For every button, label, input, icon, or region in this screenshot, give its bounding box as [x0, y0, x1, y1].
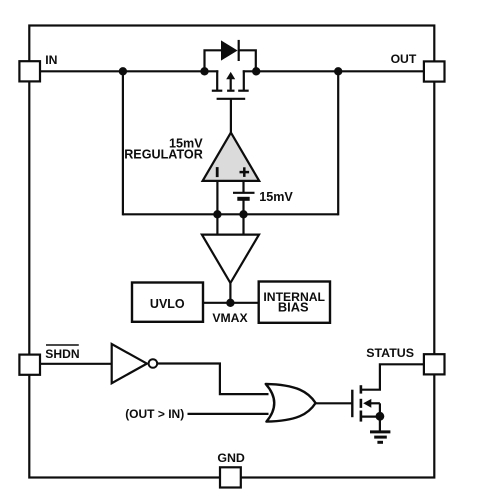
node: sense rail left junction	[213, 210, 221, 218]
wire: inverter output to OR gate top input	[157, 364, 268, 395]
svg-text:15mV: 15mV	[259, 190, 293, 204]
comparator U2	[202, 235, 259, 283]
svg-text:UVLO: UVLO	[150, 297, 185, 311]
pin pad SHDN	[19, 355, 40, 375]
pin pad STATUS	[424, 354, 445, 374]
wire: IN rail left segment	[29, 70, 218, 72]
wire: Q2 source to ground	[379, 417, 381, 432]
node: Q1 drain junction	[252, 67, 260, 75]
svg-text:OUT: OUT	[391, 52, 417, 66]
node VMAX	[226, 299, 234, 307]
transistor Q2 (status NMOS)	[352, 364, 424, 421]
wire: OUT rail right segment	[243, 70, 434, 72]
battery V1 15mV offset	[233, 193, 255, 199]
diode D1 body diode	[205, 40, 256, 71]
U1 minus input mark	[216, 167, 219, 177]
svg-text:REGULATOR: REGULATOR	[124, 148, 203, 162]
node: Q2 source-body junction	[376, 412, 385, 421]
label SHDN (with overbar)	[45, 345, 79, 361]
svg-text:VMAX: VMAX	[212, 311, 248, 325]
pin pad OUT	[424, 61, 445, 81]
svg-text:STATUS: STATUS	[366, 346, 414, 360]
pin pad IN	[19, 61, 40, 81]
outer border frame wire	[29, 26, 434, 478]
svg-text:BIAS: BIAS	[278, 300, 309, 315]
U3 output bubble	[149, 359, 158, 368]
wire: right branch OUT sense	[337, 71, 339, 215]
ground symbol	[370, 432, 390, 442]
svg-text:IN: IN	[45, 53, 57, 67]
svg-text:SHDN: SHDN	[45, 347, 79, 361]
node: sense rail right junction	[239, 210, 247, 218]
svg-text:(OUT > IN): (OUT > IN)	[125, 407, 184, 421]
wire: OR output to Q2 gate	[316, 402, 353, 404]
OR gate U4	[266, 384, 316, 422]
wire: VMAX to INTERNAL BIAS	[230, 302, 259, 304]
transistor Q1 (pass PMOS)	[212, 70, 249, 99]
pin pad GND	[220, 467, 241, 487]
wire: left branch IN sense	[122, 71, 124, 215]
block INTERNAL BIAS	[259, 282, 330, 323]
wire: VMAX to UVLO	[203, 302, 230, 304]
block UVLO	[132, 283, 203, 322]
svg-text:GND: GND	[217, 451, 245, 465]
U1 plus input mark	[240, 167, 250, 177]
wire: SHDN pad to inverter	[39, 363, 111, 365]
wire: Q1 gate to U1 output	[230, 99, 232, 133]
wire: U1 plus input to battery	[242, 181, 244, 193]
label INTERNAL BIAS	[263, 290, 325, 315]
wire: battery to U2 plus	[242, 199, 244, 236]
wire: (OUT>IN) to OR gate bottom input	[188, 413, 269, 415]
wire: U2 output to VMAX node	[229, 283, 231, 303]
node: rail junction right branch	[334, 67, 342, 75]
node: Q1 source junction	[200, 67, 208, 75]
op-amp U1 15mV regulator	[203, 133, 260, 181]
wire: U1 minus input down to U2	[216, 181, 218, 236]
node: rail junction left branch	[119, 67, 127, 75]
inverter U3	[112, 344, 147, 383]
wire: sense rail horizontal	[123, 213, 338, 215]
label: 15mV REGULATOR	[124, 137, 203, 162]
